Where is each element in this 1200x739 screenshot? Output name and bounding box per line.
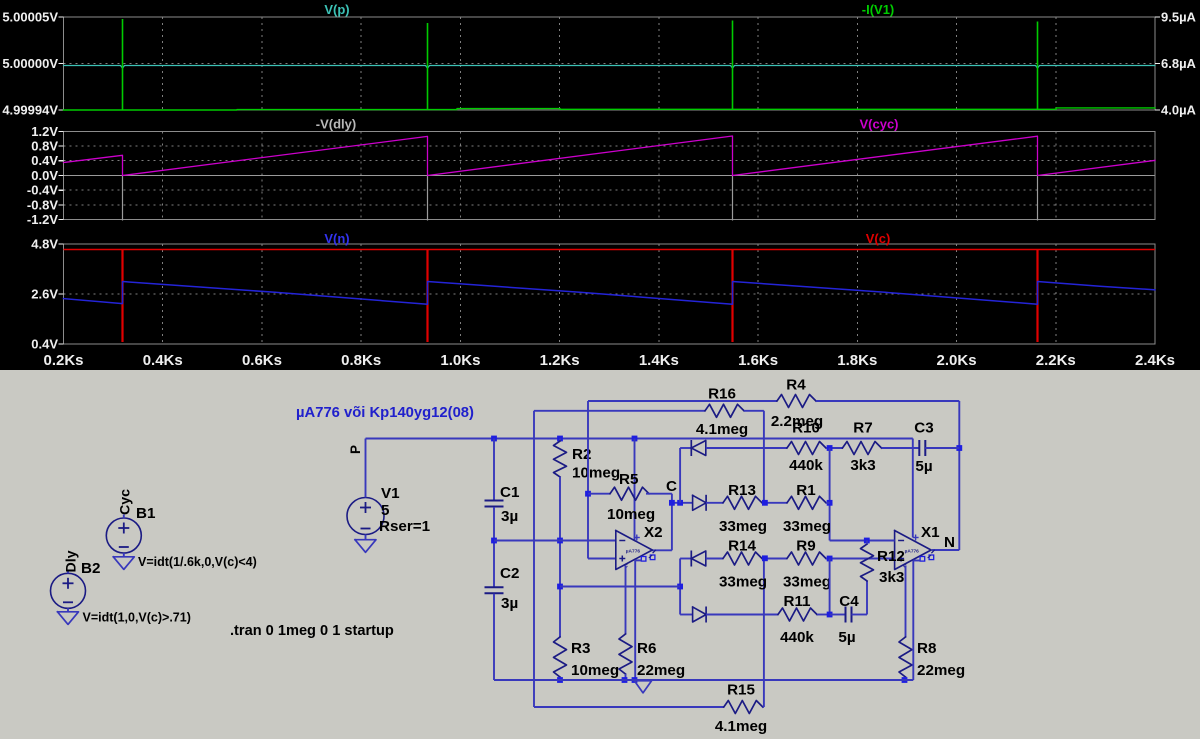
svg-text:V(c): V(c) <box>866 231 891 246</box>
svg-text:R15: R15 <box>727 682 755 699</box>
capacitor C4 <box>845 607 847 623</box>
wire to D4 anode <box>680 614 693 616</box>
svg-text:-V(dly): -V(dly) <box>316 117 356 132</box>
waveform viewer background <box>0 0 1200 370</box>
resistor R13 body <box>723 496 762 509</box>
junction R3 / ground rail <box>557 677 563 683</box>
wire to X1 inverting input <box>829 448 831 541</box>
junction node P / X2 V+ <box>632 436 638 442</box>
svg-text:V=idt(1/.6k,0,V(c)<4): V=idt(1/.6k,0,V(c)<4) <box>138 555 257 569</box>
wire R11 right lead <box>817 614 830 616</box>
wire R2 bottom down to R3 <box>559 477 561 637</box>
wire R16 left <box>534 410 705 412</box>
svg-text:440k: 440k <box>780 629 814 646</box>
wire B1 bottom stub <box>123 553 125 557</box>
svg-text:5: 5 <box>381 502 390 519</box>
wire X2 inverting input <box>494 540 616 542</box>
svg-text:10meg: 10meg <box>572 465 620 482</box>
junction diode return <box>677 584 683 590</box>
trace V(cyc) magenta sawtooth, pane 2 <box>64 136 1156 176</box>
svg-text:R9: R9 <box>796 538 815 555</box>
wire P to X2 V+ pin <box>634 439 636 541</box>
svg-text:4.1meg: 4.1meg <box>715 718 767 735</box>
wire V1 top to node P <box>365 439 367 498</box>
wire R4 left <box>588 400 777 402</box>
svg-text:2.4Ks: 2.4Ks <box>1135 352 1175 369</box>
svg-text:2.2Ks: 2.2Ks <box>1036 352 1076 369</box>
wire node N vertical <box>958 401 960 550</box>
wire to X2 output <box>652 549 672 551</box>
resistor R11 body <box>778 608 817 621</box>
svg-text:5.00005V: 5.00005V <box>2 10 58 25</box>
junction R6 / rail <box>622 677 628 683</box>
svg-text:0.2Ks: 0.2Ks <box>43 352 83 369</box>
svg-text:3µ: 3µ <box>501 508 518 525</box>
resistor R5 body <box>610 487 649 500</box>
svg-text:4.99994V: 4.99994V <box>2 103 58 118</box>
svg-text:33meg: 33meg <box>783 518 831 535</box>
svg-text:R6: R6 <box>637 640 656 657</box>
svg-text:0.4V: 0.4V <box>31 153 58 168</box>
wire D4 to R11 <box>706 614 778 616</box>
svg-text:2.6V: 2.6V <box>31 287 58 302</box>
wire R7 to C3 <box>882 447 920 449</box>
junction X2 null / rail <box>632 677 638 683</box>
resistor R16 body <box>705 404 744 417</box>
svg-text:33meg: 33meg <box>783 574 831 591</box>
wire C4 up to R12 <box>866 581 868 615</box>
wire R9 right lead <box>826 558 830 560</box>
junction R2 wire / X2 inverting input <box>557 538 563 544</box>
svg-text:µA776: µA776 <box>626 549 641 555</box>
capacitor C3 <box>918 440 920 456</box>
svg-text:3µ: 3µ <box>501 595 518 612</box>
wire R4 right <box>816 400 959 402</box>
resistor R4 body <box>777 395 816 408</box>
trace -I(V1) green, pane 1 <box>64 108 1156 110</box>
svg-text:0.8Ks: 0.8Ks <box>341 352 381 369</box>
svg-text:10meg: 10meg <box>607 506 655 523</box>
svg-text:B2: B2 <box>81 560 100 577</box>
wire down to X2 noninverting input <box>587 401 589 559</box>
resistor R9 body <box>787 552 826 565</box>
svg-text:5µ: 5µ <box>915 458 932 475</box>
wire ground rail <box>494 679 913 681</box>
junction to diode return wire <box>557 584 563 590</box>
wire X2 null pin down <box>634 560 636 680</box>
svg-text:3k3: 3k3 <box>879 569 904 586</box>
wire C2 bottom to ground rail <box>493 594 495 680</box>
wire R6 to rail <box>625 674 627 680</box>
wire node C vertical <box>671 494 673 551</box>
wire to X1 output <box>932 549 960 551</box>
ground on rail <box>634 681 651 693</box>
wire to X1 noninverting input <box>830 558 895 560</box>
svg-text:Cyc: Cyc <box>118 489 134 515</box>
svg-text:0.4V: 0.4V <box>31 337 58 352</box>
svg-text:X1: X1 <box>921 524 940 541</box>
svg-text:Rser=1: Rser=1 <box>379 518 431 535</box>
diode D4 (pointing right) <box>693 607 707 622</box>
wire to D1 cathode <box>680 447 691 449</box>
wire R5 right lead <box>646 493 672 495</box>
wire C1 bottom to C2 top <box>493 507 495 587</box>
wire R5 left lead <box>588 493 610 495</box>
wire B2 bottom stub <box>67 608 69 612</box>
svg-text:C1: C1 <box>500 484 520 501</box>
wire D1-D2 vertical <box>679 448 681 503</box>
svg-text:R11: R11 <box>783 593 811 610</box>
wire R14 to R9 <box>762 558 787 560</box>
wire X1 inverting input <box>830 540 895 542</box>
svg-text:C2: C2 <box>500 565 519 582</box>
wire R15 right <box>763 706 764 708</box>
svg-text:0.0V: 0.0V <box>31 168 58 183</box>
wire node P down to X1 V+ <box>912 439 914 538</box>
svg-text:R5: R5 <box>619 471 639 488</box>
ground under B2 <box>58 612 79 625</box>
wire R16 right <box>744 410 764 412</box>
ground under V1 <box>355 540 376 553</box>
wire diode return to R2/R3 node <box>560 586 680 588</box>
junction R11/C4 <box>827 612 833 618</box>
svg-text:-0.4V: -0.4V <box>27 183 58 198</box>
svg-text:R14: R14 <box>728 538 756 555</box>
resistor R6 body <box>619 634 632 674</box>
wire P to R2 <box>559 439 561 442</box>
resistor R8 body <box>899 637 912 677</box>
svg-text:B1: B1 <box>136 505 156 522</box>
svg-text:V(n): V(n) <box>324 231 349 246</box>
svg-text:R4: R4 <box>786 377 806 394</box>
svg-text:22meg: 22meg <box>917 662 965 679</box>
voltage source V1 <box>347 498 384 535</box>
wire D3-D4 vertical <box>679 559 681 615</box>
wire down to R11/C4 node <box>829 559 831 615</box>
diode D2 (pointing right) <box>693 495 707 510</box>
wire C4 right lead <box>852 614 868 616</box>
junction node P / C1 <box>491 436 497 442</box>
wire R1 right lead <box>826 502 830 504</box>
junction R14/R9/R15 <box>762 555 768 561</box>
junction node C <box>669 500 675 506</box>
wire C4 left lead <box>830 614 846 616</box>
voltage source B1 <box>106 518 141 553</box>
junction R13/R1/R16 <box>762 500 768 506</box>
resistor R14 body <box>723 552 762 565</box>
wire R15 up to R14/R9 node <box>763 558 765 707</box>
svg-text:-0.8V: -0.8V <box>27 197 58 212</box>
wire to D3 cathode <box>680 558 691 560</box>
junction R5 left <box>585 491 591 497</box>
wire R13 to R1 <box>762 502 787 504</box>
svg-text:C: C <box>666 478 677 495</box>
svg-text:1.6Ks: 1.6Ks <box>738 352 778 369</box>
svg-text:R16: R16 <box>708 386 736 403</box>
junction R9 / C4 branch <box>827 556 833 562</box>
voltage source B2 <box>51 573 86 608</box>
svg-text:1.2Ks: 1.2Ks <box>540 352 580 369</box>
svg-text:-I(V1): -I(V1) <box>862 2 895 17</box>
svg-text:µA776 või Kp140yg12(08): µA776 või Kp140yg12(08) <box>296 405 474 421</box>
wire V1 bottom stub <box>365 535 367 540</box>
ground under B1 <box>113 557 134 570</box>
wire node P horizontal <box>366 438 913 440</box>
svg-text:440k: 440k <box>789 457 823 474</box>
wire R3 to rail <box>559 677 561 680</box>
svg-text:V1: V1 <box>381 485 400 502</box>
junction C1-C2 / X2 inverting wire <box>491 538 497 544</box>
wire R10 to R7 <box>826 447 843 449</box>
svg-text:-1.2V: -1.2V <box>27 212 58 227</box>
svg-text:0.8V: 0.8V <box>31 139 58 154</box>
svg-text:0.4Ks: 0.4Ks <box>143 352 183 369</box>
wire R12 top lead <box>866 541 868 545</box>
capacitor C2 <box>485 586 504 588</box>
resistor R12 body <box>861 544 874 581</box>
svg-text:33meg: 33meg <box>719 518 767 535</box>
resistor R1 body <box>787 496 826 509</box>
wire to C1 top <box>493 439 495 501</box>
trace V(n) blue, pane 3 <box>64 282 1156 305</box>
svg-text:10meg: 10meg <box>571 662 619 679</box>
svg-text:5.00000V: 5.00000V <box>2 56 58 71</box>
svg-text:V(cyc): V(cyc) <box>859 117 898 132</box>
svg-text:R1: R1 <box>796 482 816 499</box>
trace V(c) red, pane 3 <box>64 249 1156 251</box>
junction node N / C3 <box>956 445 962 451</box>
svg-text:4.8V: 4.8V <box>31 237 58 252</box>
svg-text:1.2V: 1.2V <box>31 124 58 139</box>
svg-text:.tran 0 1meg 0 1 startup: .tran 0 1meg 0 1 startup <box>230 623 394 639</box>
svg-text:R13: R13 <box>728 482 756 499</box>
junction R10/R7 branch <box>827 445 833 451</box>
svg-text:4.0µA: 4.0µA <box>1161 103 1197 118</box>
capacitor C1 <box>485 500 504 502</box>
wire X2 V- pin down <box>625 566 627 635</box>
wire B2 top stub <box>67 570 69 574</box>
wire R8 to rail <box>905 677 907 680</box>
wire X2 noninverting input <box>588 558 616 560</box>
diode D1 (pointing left) <box>690 440 692 456</box>
svg-text:R12: R12 <box>877 548 905 565</box>
wire X2 null pin stub <box>635 559 641 561</box>
wire X1 null pin down <box>912 561 914 681</box>
wire R16 down to R13/R1 node <box>763 411 765 503</box>
svg-text:R8: R8 <box>917 640 936 657</box>
svg-text:3k3: 3k3 <box>850 457 875 474</box>
wire X1 V- pin down <box>905 566 907 638</box>
wire C3 to node N <box>925 447 959 449</box>
svg-text:1.8Ks: 1.8Ks <box>837 352 877 369</box>
svg-text:1.0Ks: 1.0Ks <box>440 352 480 369</box>
wire R16 left vertical <box>533 411 535 707</box>
wire bottom to R15 <box>534 706 724 708</box>
junction node C / diode pair <box>677 500 683 506</box>
op-amp X1 body <box>895 531 932 570</box>
svg-text:0.6Ks: 0.6Ks <box>242 352 282 369</box>
svg-text:R10: R10 <box>792 420 820 437</box>
svg-text:P: P <box>348 445 363 454</box>
wire D3 to R14 <box>706 558 723 560</box>
diode D3 (pointing left) <box>690 551 692 567</box>
plot panes: borders and grid <box>59 17 1161 344</box>
svg-text:X2: X2 <box>644 524 663 541</box>
svg-text:V(p): V(p) <box>324 2 349 17</box>
junction node P / R2 <box>557 436 563 442</box>
wire B1 top stub <box>123 515 125 519</box>
svg-text:6.8µA: 6.8µA <box>1161 56 1197 71</box>
resistor R7 body <box>843 442 882 455</box>
svg-text:1.4Ks: 1.4Ks <box>639 352 679 369</box>
svg-text:N: N <box>944 534 955 551</box>
op-amp X2 body <box>616 531 653 570</box>
junction R8 / rail <box>902 677 908 683</box>
svg-text:5µ: 5µ <box>838 629 855 646</box>
svg-text:Dly: Dly <box>64 550 80 572</box>
junction R12 top <box>864 538 870 544</box>
svg-text:33meg: 33meg <box>719 574 767 591</box>
trace V(p) cyan, pane 1 <box>64 66 1156 69</box>
svg-text:2.0Ks: 2.0Ks <box>937 352 977 369</box>
svg-text:R7: R7 <box>853 420 872 437</box>
svg-text:C3: C3 <box>914 420 933 437</box>
wire D2 to R13 <box>706 502 723 504</box>
wire node C to D2 <box>672 502 693 504</box>
wire D1 to R10 <box>706 447 787 449</box>
svg-text:V=idt(1,0,V(c)>.71): V=idt(1,0,V(c)>.71) <box>83 611 191 625</box>
svg-text:4.1meg: 4.1meg <box>696 421 748 438</box>
resistor R15 body <box>724 701 763 714</box>
resistor R2 body <box>554 441 567 477</box>
trace -V(dly) gray, pane 2 <box>122 176 124 221</box>
svg-text:22meg: 22meg <box>637 662 685 679</box>
resistor R10 body <box>787 442 826 455</box>
svg-text:C4: C4 <box>839 593 859 610</box>
wire X1 null pin stub <box>913 560 920 562</box>
svg-text:µA776: µA776 <box>905 549 920 555</box>
svg-text:9.5µA: 9.5µA <box>1161 10 1197 25</box>
svg-text:R3: R3 <box>571 640 590 657</box>
junction R1 right <box>827 500 833 506</box>
schematic background <box>0 370 1200 739</box>
resistor R3 body <box>554 637 567 677</box>
